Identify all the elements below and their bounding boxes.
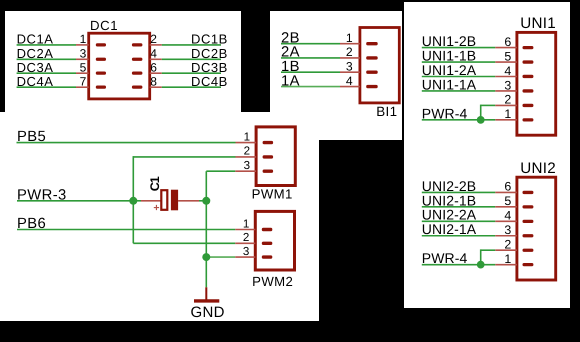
svg-text:3: 3 bbox=[244, 159, 250, 172]
svg-text:8: 8 bbox=[150, 74, 157, 88]
svg-text:PWM1: PWM1 bbox=[252, 187, 293, 202]
svg-text:1A: 1A bbox=[281, 73, 300, 89]
svg-text:4: 4 bbox=[346, 74, 353, 88]
svg-text:5: 5 bbox=[80, 60, 87, 74]
svg-text:DC3A: DC3A bbox=[17, 60, 54, 75]
svg-text:UNI2: UNI2 bbox=[520, 160, 556, 177]
svg-text:2: 2 bbox=[346, 45, 353, 59]
svg-text:3: 3 bbox=[346, 59, 353, 73]
svg-text:2: 2 bbox=[243, 231, 249, 244]
svg-text:7: 7 bbox=[80, 74, 87, 88]
svg-text:5: 5 bbox=[504, 194, 511, 208]
svg-text:UNI1-1A: UNI1-1A bbox=[422, 76, 477, 92]
svg-text:6: 6 bbox=[150, 60, 157, 74]
svg-text:1: 1 bbox=[80, 32, 87, 46]
svg-text:DC1B: DC1B bbox=[191, 32, 228, 47]
svg-text:2: 2 bbox=[150, 32, 157, 46]
svg-text:DC3B: DC3B bbox=[191, 60, 228, 75]
svg-text:3: 3 bbox=[80, 47, 87, 61]
svg-text:1: 1 bbox=[243, 217, 249, 230]
svg-text:1: 1 bbox=[244, 130, 250, 143]
svg-text:DC1: DC1 bbox=[90, 18, 118, 33]
svg-text:2: 2 bbox=[244, 145, 250, 158]
svg-text:PWR-4: PWR-4 bbox=[422, 250, 468, 266]
svg-text:PWM2: PWM2 bbox=[252, 274, 293, 289]
svg-text:3: 3 bbox=[243, 245, 249, 258]
svg-text:1: 1 bbox=[346, 31, 353, 45]
svg-text:DC4A: DC4A bbox=[17, 74, 54, 89]
svg-text:+: + bbox=[153, 202, 159, 214]
svg-text:4: 4 bbox=[150, 47, 157, 61]
svg-text:DC2A: DC2A bbox=[17, 46, 54, 61]
svg-text:UNI1: UNI1 bbox=[520, 15, 556, 32]
svg-text:UNI2-1A: UNI2-1A bbox=[422, 221, 477, 237]
svg-text:DC2B: DC2B bbox=[191, 46, 228, 61]
svg-text:C1: C1 bbox=[148, 176, 162, 191]
svg-text:BI1: BI1 bbox=[376, 104, 397, 119]
svg-text:DC1A: DC1A bbox=[17, 32, 54, 47]
svg-text:DC4B: DC4B bbox=[191, 74, 228, 89]
svg-text:PWR-4: PWR-4 bbox=[422, 105, 468, 121]
svg-text:GND: GND bbox=[191, 304, 225, 321]
